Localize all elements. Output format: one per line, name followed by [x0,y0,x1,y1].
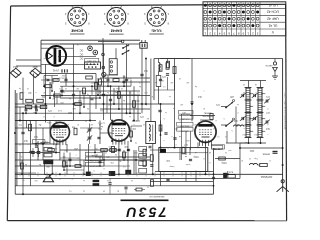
wire ev24 [195,172,197,182]
svg-text:scale: scale [185,163,191,165]
chain2 box [173,67,176,74]
wire eh23 [190,115,215,117]
wire ev14 [66,160,68,174]
electrolytic on bus [93,180,99,182]
junction e0 [43,85,45,87]
junction node 0 [73,85,75,87]
junction e14 [21,173,23,175]
junction e17 [123,159,125,161]
converter tube UCH42 [195,121,216,142]
svg-text:UAF 42: UAF 42 [267,17,279,21]
wire eh9 [15,120,60,122]
junction node 8 [59,173,61,175]
svg-text:ant: ant [228,149,231,152]
wire ev29 [55,144,57,153]
voltage selector [85,62,101,69]
wire v16 [205,142,207,174]
trimmer capacitor T4 [253,117,255,120]
junction d26 [73,103,75,105]
mains switch S1 [123,50,130,54]
wire h0 [41,43,140,45]
wire v2 [45,64,47,123]
earth terminal with ground [273,62,276,65]
wire ev16 [94,144,96,152]
trimmer capacitor T5 [265,99,267,102]
box L5 [156,76,161,87]
vertical resistor below T2 [112,147,115,153]
electrolytic C51 [31,151,35,153]
resistor R24 [143,160,146,167]
svg-text:UCH42: UCH42 [71,29,83,33]
trimmer capacitor T2 [241,117,243,120]
wire eh8 [60,81,150,83]
cap on lower rail 1 [108,182,111,184]
inner frame bottom horizontal [15,193,213,195]
wire h9 [95,156,150,158]
resistor R17 [113,79,119,82]
junction e11 [99,165,101,167]
resistor R17 [86,76,93,79]
capacitor C12 [109,98,112,100]
wire ev12 [42,128,44,160]
resistor R6 [45,85,52,88]
svg-text:1M: 1M [186,81,189,83]
wire v22 [37,141,39,161]
wire h4 [15,112,141,114]
antenna feed line [282,59,284,184]
capacitor C114 [25,108,28,110]
junction d8 [94,151,96,153]
svg-text:OC: OC [79,57,83,60]
capacitor C4 [35,145,38,147]
feed line junction [282,151,284,153]
wire ev31 [19,153,21,167]
capacitor C38 [166,178,169,180]
cap on bus 1 [86,172,91,176]
junction d9 [103,159,105,161]
wire mh9 [60,157,80,159]
resistor R11 [95,83,98,90]
labels left of UCH42 [179,111,194,115]
wire mh4 [60,120,73,122]
svg-text:2M2: 2M2 [41,95,46,97]
bus leg [145,172,147,176]
wire v26 [99,121,101,145]
junction e8 [63,169,65,171]
resistor R51 [40,105,47,108]
trimmer capacitor T1 [241,94,243,97]
svg-text:1M: 1M [28,91,31,93]
capacitor C30 [127,148,130,150]
wire eh22 [240,147,282,149]
bus leg [118,172,120,176]
junction d7 [66,165,68,167]
wire eh4 [58,56,96,58]
wire mv6 [99,86,101,98]
wire eh14 [150,103,175,105]
svg-text:WAVEBAND SW: WAVEBAND SW [149,195,164,198]
wire mv4 [83,95,85,107]
wire mv15 [130,126,132,141]
junction d22 [282,147,284,149]
wire v1 [33,74,35,105]
wire eh15 [80,112,140,114]
resistor R3 [20,93,23,100]
wire ev18 [127,141,129,170]
wire mh13 [150,149,160,151]
wire ev6 [113,88,115,104]
wire ev7 [121,95,123,121]
switch contact circle [121,40,124,43]
wire v19 [118,141,120,174]
bus leg [136,172,138,176]
resistor R28 [101,149,108,152]
wire h12 [100,108,150,110]
label box row1 [85,152,102,156]
svg-text:UL41: UL41 [152,29,161,33]
svg-text:TERMINAL: TERMINAL [201,115,213,118]
wire v9 [126,44,128,113]
junction d5 [145,103,147,105]
junction e16 [130,140,132,142]
capacitor C116 [149,145,152,147]
wire ev22 [197,142,199,147]
heater wire drop [102,38,104,78]
wire mv0 [43,76,45,87]
coil stack bottom wires [248,137,250,143]
bus leg [163,172,165,176]
resistor R19 [63,161,66,167]
junction node 7 [22,112,24,114]
wire h1 [60,85,131,87]
junction d11 [19,120,21,122]
wire eh10 [15,106,45,108]
wire mv1 [51,76,53,92]
svg-text:1M: 1M [170,81,173,83]
wire eh24 [226,142,248,144]
cap on lower rail 2 [124,186,127,188]
junction node 16 [110,85,112,87]
wire eh17 [60,165,100,167]
capacitor C34 [21,131,24,133]
bus leg [91,172,93,176]
capacitor C18 [140,73,143,75]
voltage panel label box [85,58,99,61]
wire eh16 [15,165,60,167]
svg-text:TONE: TONE [91,154,97,156]
wire ev9 [137,95,139,121]
junction d23 [248,142,250,144]
junction e10 [83,173,85,175]
junction d16 [111,140,113,142]
resistor R113 [123,152,126,158]
wire ev10 [145,59,147,105]
bus leg [172,172,174,176]
junction node 14 [160,103,162,105]
svg-text:1M: 1M [194,123,197,125]
resistor R13 [117,92,120,99]
junction d14 [55,152,57,154]
capacitor C10 [47,78,50,80]
tube pins marks [61,69,63,72]
wire ev26 [235,107,237,144]
wire v5 [95,74,97,110]
bus leg [100,172,102,176]
wire h7 [15,159,150,161]
junction node 10 [152,173,154,175]
wire v17 [59,142,61,161]
wire mv8 [123,75,125,86]
wire eh12 [100,94,140,96]
capacitor C5 [29,150,32,152]
svg-text:8u: 8u [117,190,119,192]
section divider vertical [213,148,215,194]
wire v8 [118,86,120,109]
resistor R1 [26,99,33,102]
bus wire B+ rail [15,173,283,175]
junction d27 [145,58,147,60]
wire ev25 [226,131,228,143]
svg-text:1n: 1n [85,149,87,151]
junction node 15 [191,103,193,105]
wire mv14 [123,150,125,160]
DK96 label [212,146,223,150]
wire ev11 [35,121,37,145]
small cap above UCH42 [210,114,213,120]
capacitor C25 [173,137,176,139]
wire v25 [239,143,241,178]
wire ev3 [89,95,91,121]
wire mh8 [131,125,142,127]
junction d17 [160,147,162,149]
wire mv7 [107,75,109,86]
svg-text:RA1: RA1 [13,65,18,68]
wave switch wire [221,106,227,108]
svg-text:1n: 1n [109,123,111,125]
aerial coil assembly L2/L3 [245,88,247,138]
wire v18 [88,144,90,174]
wire mv11 [69,153,71,167]
svg-text:x: x [256,91,257,93]
wire mv9 [130,80,132,86]
bus leg [19,172,21,176]
junction e12 [25,112,27,114]
svg-text:1M: 1M [194,135,197,137]
IF transformer T2 [146,122,156,144]
cap on bus 2 [109,171,115,176]
junction e13 [35,112,37,114]
wire eh19 [15,127,60,129]
band switch contact S2b [226,120,233,126]
svg-text:c: c [249,115,250,117]
wire ev28 [26,121,28,129]
wire ev8 [129,91,131,113]
wire v4 [73,44,75,120]
resistor R13 [83,88,86,94]
svg-text:1M: 1M [76,87,79,89]
bus leg [46,172,48,176]
wire mv2 [56,96,58,105]
capacitor C110 [69,158,72,160]
junction node 3 [141,103,143,105]
valve socket UCH42 base diagram [68,7,87,26]
bus leg [181,172,183,176]
junction node 18 [282,164,284,166]
wire ev13 [49,121,51,145]
junction d3 [113,103,115,105]
wire eh20 [150,181,213,183]
selenium rectifier GR2 [30,68,41,77]
wire eh7 [100,77,150,79]
wire v13 [160,104,162,148]
wire mv18 [21,160,23,174]
resistor R29 [110,149,117,152]
svg-text:753U: 753U [124,205,166,221]
bus leg [190,172,192,176]
dial left components [150,155,153,162]
svg-text:500p: 500p [193,155,199,157]
loudspeaker with output transformer [44,148,52,152]
wire v21 [30,121,32,186]
junction node 4 [126,112,128,114]
resistor R15 [133,101,136,108]
junction e3 [83,106,85,108]
capacitor C50 [34,105,36,109]
wire mv16 [25,107,27,113]
wire mh1 [44,75,58,77]
osc coupling coil L5 [234,125,245,127]
bus leg [82,172,84,176]
bus leg [28,172,30,176]
wire eh1 [60,43,103,45]
coil stack top wires [248,81,250,89]
oscillator coil assembly L6/L7 [257,88,259,138]
border frame top [11,4,286,6]
junction e1 [51,90,53,92]
resistor R9 [75,103,82,106]
bold junction x225 [223,173,226,178]
bus leg [64,172,66,176]
svg-text:UY41: UY41 [52,69,59,73]
junction d19 [205,141,207,143]
svg-text:SE5-R50: SE5-R50 [181,129,189,131]
wire eh21 [215,158,240,160]
wire eh3 [41,64,96,66]
svg-text:EARTH: EARTH [265,64,272,67]
resistor R26 [182,147,185,154]
wire v7 [110,86,112,120]
RF section left wire [153,59,155,101]
wire mh12 [15,172,36,174]
wire eh11 [60,97,100,99]
selenium rectifier GR1 [10,68,21,77]
svg-text:1k: 1k [147,186,149,188]
wire eh6 [16,59,41,61]
wire eh2 [98,41,122,43]
svg-text:UAF42: UAF42 [131,119,140,123]
svg-text:ANTENNA: ANTENNA [260,175,272,178]
junction d21 [239,147,241,149]
bus leg [37,172,39,176]
capacitor C40 [212,176,215,178]
wire mv5 [91,86,93,95]
bus leg [55,172,57,176]
svg-text:AERIAL: AERIAL [261,153,270,156]
capacitor C22 [164,132,167,134]
junction node 12 [88,173,90,175]
wire v20 [22,113,24,194]
output tube UL41 [50,122,69,141]
resistor on lower rail [136,188,142,191]
switch blade 2 [123,45,129,48]
wire mh6 [20,120,36,122]
wire ev17 [103,150,105,166]
wire v14 [174,59,176,148]
resistor R35 [48,149,55,152]
svg-text:GO5-ZM: GO5-ZM [182,117,190,119]
capacitor C118 [35,108,38,110]
dial lamp LP2 [93,50,98,55]
wire h6 [15,152,60,154]
wire v3 [65,74,67,87]
label box row2 [85,157,102,161]
svg-text:OC: OC [79,53,83,56]
wire ev21 [189,148,191,155]
valve socket UL41 base diagram [147,7,166,26]
antenna series coil L1 and resistor [250,163,258,165]
svg-text:1n: 1n [173,107,175,109]
capacitor C12 [61,89,64,91]
wire ev1 [54,91,56,107]
rectifier tube UY41 [46,46,66,66]
wire mh5 [80,127,100,129]
svg-text:50c/s: 50c/s [44,57,49,59]
mains plug P1 [140,43,147,49]
svg-text:1n: 1n [233,157,235,159]
wire mh7 [100,132,112,134]
svg-text:753U Philips service dokumenta: 753U Philips service dokumentation [284,92,287,131]
junction d12 [42,143,44,145]
resistor R11 [53,79,59,82]
bus leg [154,172,156,176]
junction d25 [111,120,113,122]
bus leg [109,172,111,176]
dial assembly box [159,148,208,172]
left rail 1 [14,90,16,194]
boxed label 12TB1 [33,140,45,144]
left rail 2 [16,93,18,186]
title rule [121,199,169,201]
resistor R21 [228,175,236,178]
tube pin voltage table [203,2,286,36]
svg-text:UL 41: UL 41 [268,23,277,27]
wire mh0 [41,79,58,81]
border frame right [286,4,287,220]
junction e9 [69,165,71,167]
wire ev30 [111,121,113,142]
wire h8 [60,149,120,151]
wire h5 [15,120,96,122]
wire stubs below UCH42 [181,114,183,160]
border frame left [7,6,10,221]
wire ev27 [19,107,21,121]
chain2 [166,63,169,70]
resistor R7 [54,94,61,97]
junction d2 [97,94,99,96]
junction e6 [107,85,109,87]
resistor R15 [99,79,102,85]
bus leg [199,172,201,176]
